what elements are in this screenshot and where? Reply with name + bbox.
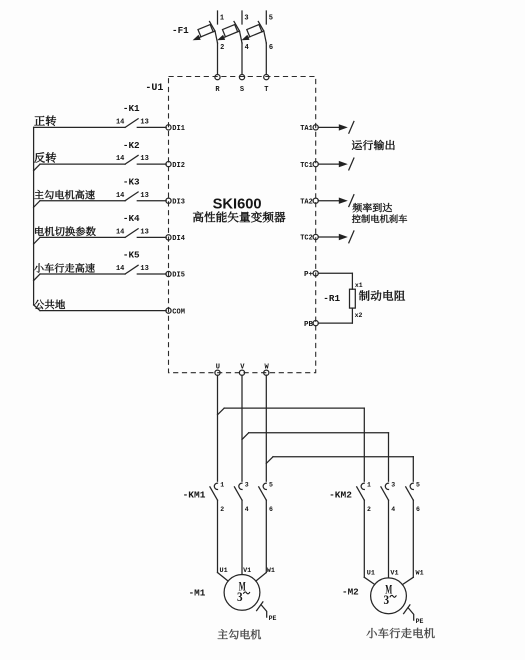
svg-text:14: 14 — [116, 155, 124, 163]
svg-text:14: 14 — [116, 192, 124, 200]
svg-text:V1: V1 — [243, 567, 251, 575]
svg-text:DI5: DI5 — [172, 272, 185, 280]
terminal U — [215, 364, 220, 376]
contactor KM2 pole 5-6 — [406, 482, 420, 578]
wire row DI5 right segment — [137, 273, 166, 275]
svg-text:DI1: DI1 — [172, 125, 185, 133]
contactor KM1 reference label — [183, 489, 206, 500]
svg-text:13: 13 — [140, 192, 148, 200]
svg-text:14: 14 — [116, 265, 124, 273]
net label 正转 — [34, 115, 56, 125]
terminal TA1 — [300, 125, 318, 133]
svg-text:COM: COM — [172, 308, 185, 316]
svg-text:3: 3 — [244, 15, 248, 23]
wire phase W branch to KM2 — [266, 457, 413, 482]
wire row DI3 left segment — [34, 201, 126, 208]
svg-text:5: 5 — [269, 482, 273, 489]
motor M1 reference label — [189, 588, 206, 599]
svg-text:-M2: -M2 — [342, 586, 359, 597]
svg-text:-F1: -F1 — [172, 25, 189, 36]
svg-text:U1: U1 — [367, 570, 375, 578]
svg-text:PB: PB — [304, 321, 314, 329]
motor M2 circle — [371, 578, 407, 614]
svg-text:13: 13 — [140, 229, 148, 237]
terminal DI3 — [166, 198, 185, 206]
motor M1 terminal labels — [220, 567, 275, 575]
motor M1 PE ground stroke — [257, 602, 263, 611]
relay contact -K4 — [116, 213, 149, 237]
pin label x1 — [355, 282, 363, 289]
contactor KM1 pole 5-6 — [259, 482, 273, 573]
svg-text:-K5: -K5 — [123, 250, 140, 261]
svg-text:PE: PE — [416, 618, 424, 625]
terminal S — [239, 75, 244, 95]
wire phase W to KM1 — [265, 375, 267, 481]
svg-text:3: 3 — [391, 482, 395, 489]
svg-text:2: 2 — [220, 506, 224, 513]
output arrow TC2 — [318, 231, 354, 243]
svg-text:-M1: -M1 — [189, 588, 206, 599]
wire row DI1 right segment — [137, 126, 166, 128]
svg-text:V1: V1 — [390, 570, 398, 578]
svg-text:-KM2: -KM2 — [329, 489, 352, 500]
contactor KM2 pole 3-4 — [381, 482, 395, 578]
breaker F1 pole 1-2 — [193, 11, 225, 74]
relay contact -K3 — [116, 176, 149, 200]
svg-text:-K2: -K2 — [123, 140, 140, 151]
svg-text:1: 1 — [367, 482, 371, 489]
pin label x2 — [355, 312, 363, 319]
inverter model text SKI600 — [213, 196, 262, 212]
terminal V — [239, 364, 245, 376]
svg-text:SKI600: SKI600 — [213, 196, 262, 212]
svg-text:-K1: -K1 — [123, 103, 140, 114]
wire phase V branch to KM2 — [242, 433, 389, 481]
svg-text:6: 6 — [269, 506, 273, 513]
svg-text:13: 13 — [140, 265, 148, 273]
svg-text:DI2: DI2 — [172, 162, 185, 170]
left common bus wire — [33, 127, 35, 305]
svg-text:2: 2 — [220, 44, 224, 52]
text 运行输出 — [352, 140, 395, 150]
terminal TC1 — [300, 162, 318, 170]
svg-text:TC1: TC1 — [300, 162, 313, 170]
svg-text:4: 4 — [245, 506, 249, 513]
svg-text:-U1: -U1 — [145, 83, 163, 94]
inverter description text — [193, 211, 285, 222]
output arrow TA2 — [318, 195, 354, 207]
terminal W — [264, 364, 270, 376]
terminal DI5 — [166, 271, 185, 279]
text 控制电机刹车 — [352, 214, 407, 223]
svg-text:x1: x1 — [355, 282, 363, 289]
svg-text:4: 4 — [245, 44, 249, 52]
svg-text:6: 6 — [269, 44, 273, 52]
relay contact -K5 — [116, 250, 149, 274]
svg-text:TC2: TC2 — [300, 235, 313, 243]
svg-text:-K3: -K3 — [123, 176, 140, 187]
wire row DI2 left segment — [34, 164, 126, 171]
svg-text:S: S — [240, 86, 244, 94]
wire phase U branch to KM2 — [218, 408, 365, 481]
svg-text:13: 13 — [140, 155, 148, 163]
svg-text:TA2: TA2 — [300, 198, 313, 206]
svg-text:14: 14 — [116, 119, 124, 127]
resistor R1 reference label — [323, 293, 340, 304]
svg-text:14: 14 — [116, 229, 124, 237]
relay contact -K2 — [116, 140, 149, 164]
contactor KM1 pole 3-4 — [234, 482, 248, 575]
motor M2 terminal labels — [367, 570, 424, 578]
output arrow TA1 — [318, 121, 354, 133]
caption 主勾电机 — [218, 629, 261, 639]
pin label PE (M1) — [269, 615, 277, 622]
wire phase U to KM1 — [217, 375, 219, 481]
svg-text:5: 5 — [416, 482, 420, 489]
wire KM2 to M2 U1 — [364, 577, 374, 584]
wire phase V to KM1 — [241, 375, 243, 481]
svg-text:PE: PE — [269, 615, 277, 622]
motor M2 PE ground stroke — [404, 605, 410, 614]
motor M2 PE lead — [408, 608, 414, 621]
svg-text:13: 13 — [140, 119, 148, 127]
wire KM1 to M1 U1 — [218, 573, 228, 581]
terminal PB — [304, 321, 318, 329]
terminal P+ — [304, 271, 318, 279]
terminal T — [264, 75, 269, 95]
breaker F1 pole 3-4 — [217, 11, 249, 74]
svg-text:W1: W1 — [267, 567, 275, 575]
wire row DI3 right segment — [137, 200, 166, 202]
caption 小车行走电机 — [367, 628, 435, 638]
relay contact -K1 — [116, 103, 149, 127]
svg-text:W1: W1 — [416, 570, 424, 578]
terminal TA2 — [300, 198, 318, 206]
wire KM2 to M2 W1 — [403, 577, 413, 584]
svg-text:-R1: -R1 — [323, 293, 340, 304]
terminal DI2 — [166, 162, 185, 170]
svg-text:U1: U1 — [220, 567, 228, 575]
net label 反转 — [34, 152, 56, 162]
terminal DI1 — [166, 125, 185, 133]
wire row DI5 left segment — [34, 274, 126, 281]
net label 小车行走高速 — [34, 263, 95, 272]
wire row DI1 left segment — [34, 126, 126, 128]
contactor KM1 pole 1-2 — [210, 482, 224, 573]
svg-text:3: 3 — [245, 482, 249, 489]
svg-text:x2: x2 — [355, 312, 363, 319]
svg-text:5: 5 — [269, 15, 273, 23]
wire resistor to PB — [318, 308, 352, 323]
motor M1 symbol text — [237, 578, 250, 604]
wire row DI2 right segment — [137, 163, 166, 165]
terminal R — [215, 75, 220, 95]
motor M1 circle — [224, 575, 260, 611]
breaker F1 pole 5-6 — [241, 11, 273, 74]
svg-text:1: 1 — [220, 482, 224, 489]
svg-text:3: 3 — [384, 592, 390, 607]
wire row DI4 left segment — [34, 237, 126, 244]
motor M2 reference label — [342, 586, 359, 597]
breaker F1 reference label — [172, 25, 189, 36]
wire KM1 to M1 W1 — [256, 573, 266, 581]
motor M2 symbol text — [384, 582, 397, 608]
svg-text:T: T — [264, 86, 268, 94]
resistor R1 — [350, 289, 356, 308]
pin label PE (M2) — [416, 618, 424, 625]
text 频率到达 — [353, 203, 392, 212]
svg-text:DI4: DI4 — [172, 235, 185, 243]
svg-text:1: 1 — [220, 15, 224, 23]
contactor KM2 reference label — [329, 489, 352, 500]
net label 公共地 — [34, 300, 65, 310]
svg-text:-KM1: -KM1 — [183, 489, 206, 500]
terminal DI4 — [166, 235, 185, 243]
contactor KM2 pole 1-2 — [357, 482, 371, 578]
terminal COM — [166, 308, 185, 316]
wire row DI4 right segment — [137, 236, 166, 238]
svg-text:3: 3 — [237, 589, 243, 604]
inverter U1 dashed enclosure — [169, 77, 316, 373]
svg-text:DI3: DI3 — [172, 198, 185, 206]
inverter U1 reference label — [145, 83, 163, 94]
net label 电机切换参数 — [35, 226, 96, 236]
svg-text:TA1: TA1 — [300, 125, 313, 133]
terminal TC2 — [300, 234, 318, 242]
wire COM row — [34, 305, 167, 311]
svg-text:R: R — [215, 86, 220, 94]
svg-text:P+: P+ — [304, 271, 314, 279]
svg-text:4: 4 — [391, 506, 395, 513]
wire P+ to resistor — [318, 273, 352, 289]
motor M1 PE lead — [261, 605, 267, 618]
output arrow TC1 — [318, 158, 354, 170]
svg-text:2: 2 — [367, 506, 371, 513]
net label 主勾电机高速 — [34, 190, 94, 199]
text 制动电阻 — [359, 290, 405, 301]
svg-text:6: 6 — [416, 506, 420, 513]
svg-text:-K4: -K4 — [123, 213, 140, 224]
